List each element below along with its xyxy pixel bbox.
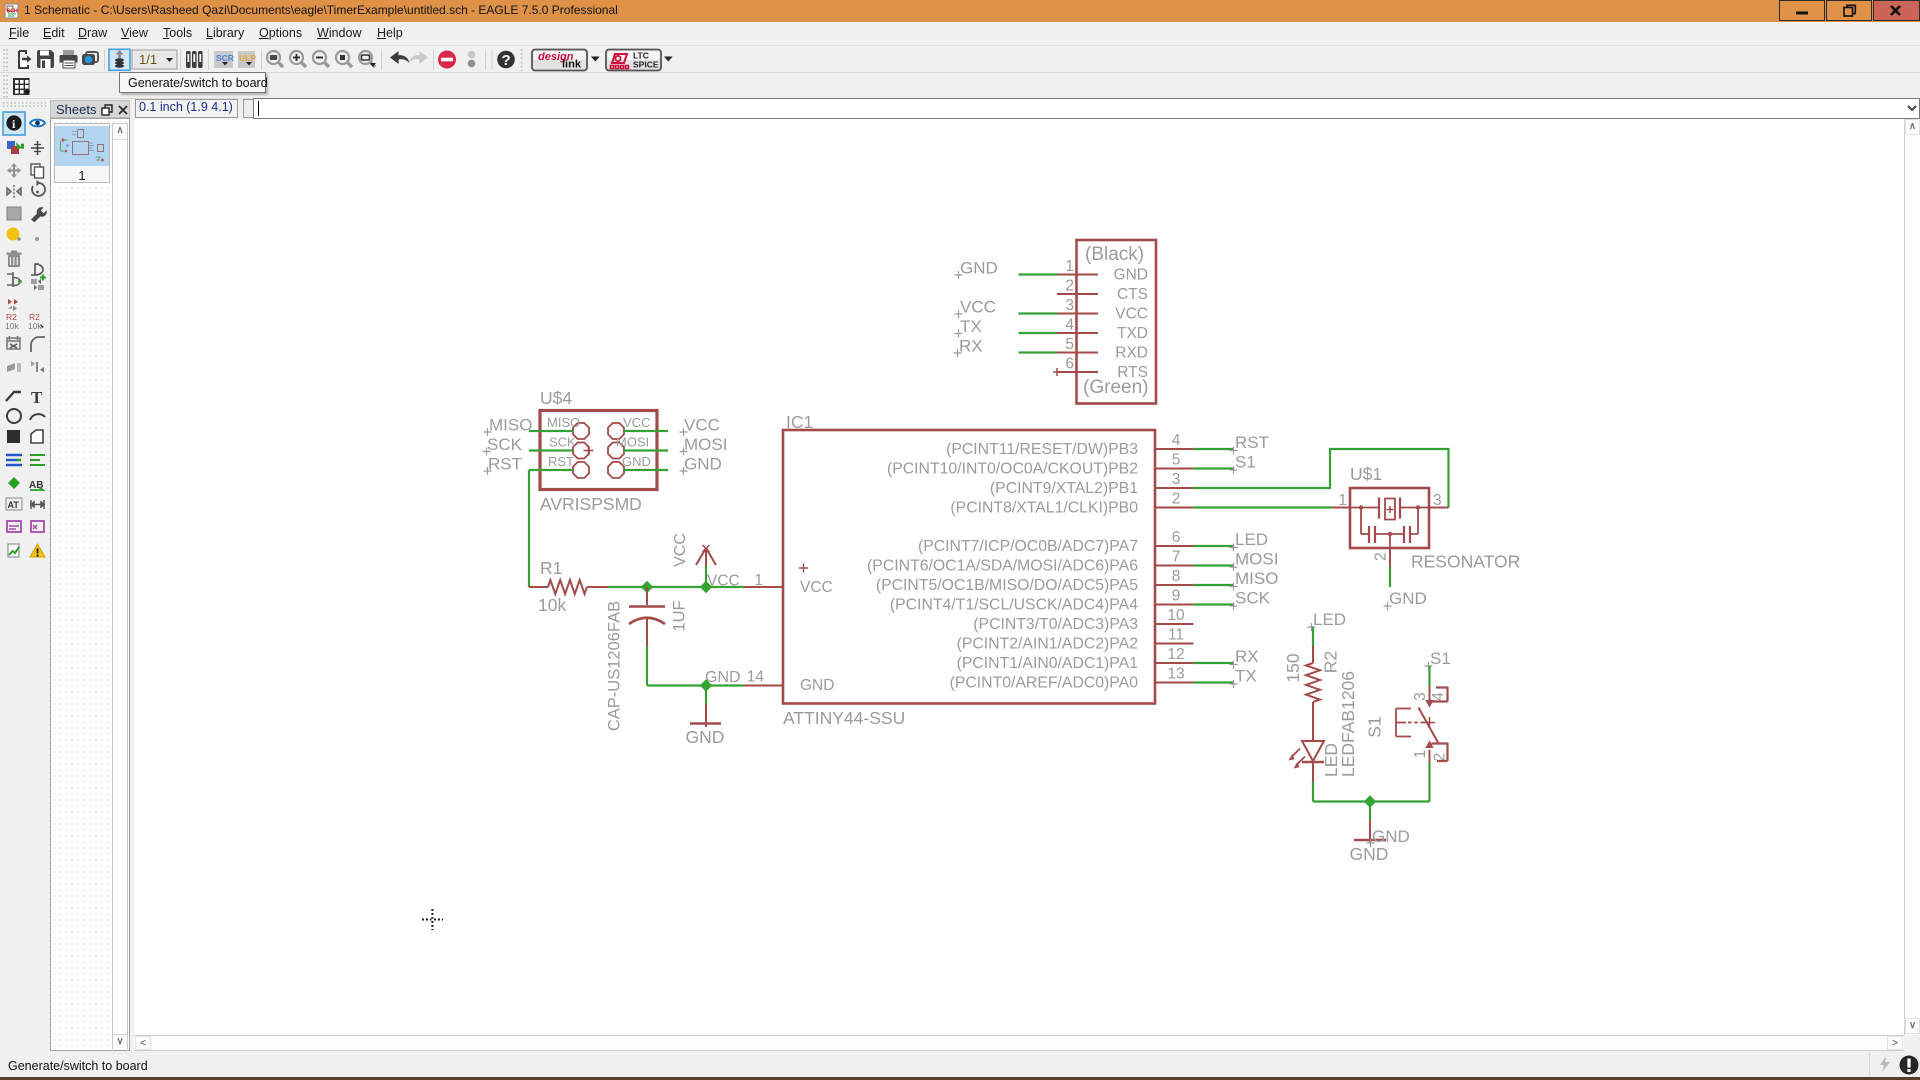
svg-text:6: 6	[1172, 529, 1181, 546]
svg-text:S1: S1	[1430, 649, 1451, 668]
svg-text:S1: S1	[1365, 716, 1385, 737]
svg-text:VCC: VCC	[672, 533, 689, 567]
svg-text:13: 13	[1167, 666, 1184, 683]
svg-text:1: 1	[1338, 492, 1347, 509]
svg-text:link: link	[562, 59, 582, 71]
svg-text:SCR: SCR	[216, 53, 234, 63]
svg-text:(PCINT2/AIN1/ADC2)PA2: (PCINT2/AIN1/ADC2)PA2	[957, 636, 1138, 653]
svg-text:(PCINT8/XTAL1/CLKI)PB0: (PCINT8/XTAL1/CLKI)PB0	[950, 500, 1138, 517]
svg-text:MISO: MISO	[547, 415, 580, 430]
svg-text:AVRISPSMD: AVRISPSMD	[540, 494, 642, 514]
svg-text:RST: RST	[1235, 433, 1269, 452]
svg-text:ULP: ULP	[239, 53, 256, 63]
svg-text:S1: S1	[1235, 453, 1256, 472]
svg-text:VCC: VCC	[623, 415, 650, 430]
svg-text:MISO: MISO	[489, 416, 532, 435]
svg-text:4: 4	[1172, 432, 1181, 449]
svg-text:14: 14	[747, 669, 765, 686]
svg-text:R1: R1	[540, 558, 562, 578]
svg-text:2: 2	[1172, 491, 1181, 508]
svg-text:AT: AT	[8, 500, 20, 510]
svg-text:5: 5	[1172, 452, 1181, 469]
svg-text:6: 6	[1065, 356, 1074, 373]
svg-text:4: 4	[1065, 317, 1074, 334]
svg-text:RST: RST	[488, 455, 522, 474]
svg-text:SCK: SCK	[487, 435, 523, 454]
svg-text:8: 8	[1172, 568, 1181, 585]
svg-text:11: 11	[1168, 627, 1184, 644]
svg-text:GND: GND	[622, 454, 651, 469]
svg-text:1: 1	[1412, 750, 1429, 759]
svg-text:U$1: U$1	[1350, 464, 1382, 484]
svg-text:9: 9	[1172, 588, 1181, 605]
svg-text:TXD: TXD	[1117, 325, 1148, 342]
svg-text:3: 3	[1412, 692, 1429, 701]
svg-text:(PCINT5/OC1B/MISO/DO/ADC5)PA5: (PCINT5/OC1B/MISO/DO/ADC5)PA5	[876, 577, 1138, 594]
svg-text:LEDFAB1206: LEDFAB1206	[1338, 671, 1358, 777]
svg-text:3: 3	[1172, 471, 1181, 488]
svg-text:(PCINT11/RESET/DW)PB3: (PCINT11/RESET/DW)PB3	[946, 441, 1138, 458]
svg-text:VCC: VCC	[1115, 306, 1148, 323]
svg-text:1: 1	[1065, 258, 1074, 275]
svg-text:1: 1	[754, 572, 763, 589]
svg-text:GND: GND	[686, 727, 725, 747]
svg-text:CTS: CTS	[1117, 286, 1148, 303]
svg-text:10k: 10k	[5, 321, 19, 331]
svg-text:10: 10	[1167, 607, 1185, 624]
svg-text:RX: RX	[959, 337, 983, 356]
svg-text:TX: TX	[1235, 667, 1257, 686]
svg-text:RST: RST	[548, 454, 574, 469]
svg-text:(PCINT0/AREF/ADC0)PA0: (PCINT0/AREF/ADC0)PA0	[950, 675, 1139, 692]
svg-text:SCH: SCH	[7, 9, 18, 15]
svg-text:TX: TX	[960, 317, 982, 336]
svg-text:(PCINT7/ICP/OC0B/ADC7)PA7: (PCINT7/ICP/OC0B/ADC7)PA7	[918, 538, 1138, 555]
svg-text:VCC: VCC	[800, 579, 833, 596]
svg-text:1UF: 1UF	[671, 600, 689, 631]
svg-text:SCK: SCK	[549, 435, 576, 450]
svg-text:LED: LED	[1313, 610, 1346, 629]
svg-text:3: 3	[1065, 297, 1074, 314]
svg-text:(PCINT4/T1/SCL/USCK/ADC4)PA4: (PCINT4/T1/SCL/USCK/ADC4)PA4	[890, 597, 1138, 614]
svg-text:2: 2	[1065, 278, 1074, 295]
svg-text:GND: GND	[1350, 844, 1389, 864]
svg-text:T: T	[31, 388, 43, 407]
svg-text:(Black): (Black)	[1085, 244, 1144, 265]
svg-text:RX: RX	[1235, 647, 1259, 666]
svg-text:RXD: RXD	[1115, 345, 1148, 362]
svg-text:1/1: 1/1	[139, 52, 157, 67]
svg-text:VCC: VCC	[684, 416, 720, 435]
svg-text:2: 2	[1373, 552, 1390, 561]
svg-text:3: 3	[1433, 492, 1442, 509]
svg-text:4: 4	[1430, 692, 1447, 701]
svg-text:(PCINT3/T0/ADC3)PA3: (PCINT3/T0/ADC3)PA3	[973, 616, 1138, 633]
svg-text:(PCINT6/OC1A/SDA/MOSI/ADC6)PA6: (PCINT6/OC1A/SDA/MOSI/ADC6)PA6	[867, 558, 1138, 575]
svg-text:R2: R2	[1321, 651, 1341, 673]
svg-text:CAP-US1206FAB: CAP-US1206FAB	[606, 601, 624, 731]
svg-text:GND: GND	[1114, 267, 1148, 284]
svg-text:(PCINT9/XTAL2)PB1: (PCINT9/XTAL2)PB1	[990, 480, 1138, 497]
svg-text:LED: LED	[1235, 530, 1268, 549]
svg-text:?: ?	[502, 52, 511, 69]
svg-text:12: 12	[1167, 646, 1184, 663]
svg-text:(PCINT10/INT0/OC0A/CKOUT)PB2: (PCINT10/INT0/OC0A/CKOUT)PB2	[887, 461, 1138, 478]
svg-text:MOSI: MOSI	[684, 435, 727, 454]
svg-text:RESONATOR: RESONATOR	[1411, 552, 1520, 572]
svg-text:(PCINT1/AIN0/ADC1)PA1: (PCINT1/AIN0/ADC1)PA1	[957, 655, 1139, 672]
svg-text:7: 7	[1172, 549, 1181, 566]
svg-text:10k: 10k	[538, 595, 566, 615]
svg-text:VCC: VCC	[707, 573, 740, 590]
svg-text:GND: GND	[684, 455, 722, 474]
svg-text:MOSI: MOSI	[616, 435, 649, 450]
svg-text:5: 5	[1065, 336, 1074, 353]
svg-text:10k: 10k	[28, 321, 42, 331]
svg-text:MISO: MISO	[1235, 569, 1278, 588]
svg-text:SPICE: SPICE	[633, 60, 659, 70]
svg-text:GND: GND	[1389, 589, 1427, 608]
svg-text:SCK: SCK	[1235, 589, 1271, 608]
svg-text:RTS: RTS	[1117, 364, 1148, 381]
svg-text:U$4: U$4	[540, 388, 572, 408]
svg-text:MOSI: MOSI	[1235, 550, 1278, 569]
svg-text:GND: GND	[800, 677, 834, 694]
svg-text:VCC: VCC	[960, 298, 996, 317]
svg-text:150: 150	[1283, 653, 1303, 682]
svg-text:GND: GND	[705, 669, 741, 686]
svg-text:GND: GND	[960, 259, 998, 278]
svg-text:ATTINY44-SSU: ATTINY44-SSU	[783, 708, 905, 728]
